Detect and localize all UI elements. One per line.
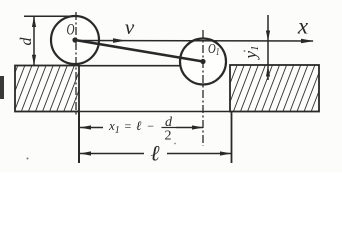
svg-text:d: d bbox=[18, 37, 35, 46]
svg-text:ℓ: ℓ bbox=[150, 141, 160, 166]
svg-text:y1: y1 bbox=[241, 45, 261, 60]
svg-text:x1=ℓ−: x1=ℓ− bbox=[108, 118, 154, 136]
svg-text:O: O bbox=[67, 21, 75, 38]
svg-text:v: v bbox=[125, 15, 135, 39]
svg-text:2: 2 bbox=[165, 129, 172, 144]
svg-text:x: x bbox=[297, 14, 309, 39]
